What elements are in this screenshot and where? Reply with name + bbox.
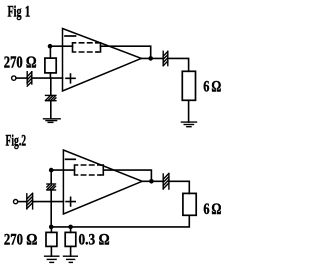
op-amp U2 minus input sign (66, 158, 76, 160)
wire: node down to vertical hatch (Fig2) (50, 170, 52, 184)
op-amp U1 plus input sign (66, 74, 75, 83)
node dot (bottom rail right, Fig2) (68, 225, 73, 230)
label 6 ohm (Fig1) (203, 78, 221, 96)
svg-text:6: 6 (203, 78, 209, 96)
svg-text:270: 270 (4, 54, 23, 72)
resistor R4 270ohm (Fig2) (46, 227, 57, 256)
input terminal circle (Fig1) (12, 76, 16, 80)
node dot (Fig2 inverting input) (49, 168, 54, 173)
hatched element on Fig2 output wire (163, 173, 169, 189)
node dot A (top of R1) (48, 44, 53, 49)
wire: node to inverting input and dashed resistor lead (Fig2) (51, 169, 74, 171)
wire: R3 bottom to feedback bottom rail (51, 215, 189, 227)
ground (Fig1 left) (44, 119, 61, 123)
label 270 ohm (Fig1) (4, 54, 37, 72)
wire: hatch down to bottom node (Fig2) (50, 190, 52, 227)
svg-text:1: 1 (25, 3, 31, 20)
wire: R2 to ground (188, 100, 190, 122)
ground (under R4) (45, 256, 59, 262)
input terminal circle (Fig2) (14, 200, 18, 204)
svg-text:6: 6 (203, 201, 209, 219)
svg-text:Ω: Ω (211, 201, 221, 219)
svg-text:0.3: 0.3 (79, 231, 96, 249)
op-amp U1 triangle (63, 29, 142, 92)
output node dot (Fig1) (148, 56, 153, 61)
resistor R2 6ohm (Fig1) (182, 71, 195, 100)
svg-text:Ω: Ω (26, 232, 37, 249)
label 270 ohm (Fig2) (4, 231, 37, 249)
wire: hatch to load corner (Fig1) (168, 58, 189, 71)
wire: terminal to input hatch (16, 77, 27, 79)
resistor R5 0.3ohm (Fig2) (65, 227, 76, 256)
resistor R3 6ohm (Fig2) (183, 193, 196, 215)
internal dashed resistor of U1 (73, 43, 101, 52)
op-amp U1 minus input sign (65, 35, 76, 37)
wire: terminal to input hatch (Fig2) (18, 201, 27, 203)
svg-text:270: 270 (4, 231, 23, 249)
wire: hatch to non-inverting input (Fig2) (33, 201, 64, 203)
ground (under R5) (64, 256, 78, 262)
wire: hatch to non-inverting input (32, 77, 63, 79)
hatched element on Fig1 input wire (27, 72, 32, 86)
svg-text:Ω: Ω (211, 78, 221, 96)
caption Fig.2 (6, 132, 27, 149)
op-amp U2 plus input sign (66, 197, 75, 206)
wire: hatch to load resistor (Fig2) (169, 181, 189, 193)
output node dot (Fig2) (149, 179, 154, 184)
svg-text:Ω: Ω (26, 54, 37, 72)
node dot (bottom rail left, Fig2) (49, 225, 54, 230)
wire: node to inverting input and dashed resistor lead (50, 45, 73, 47)
caption Fig1 (8, 2, 31, 20)
label 6 ohm (Fig2) (203, 201, 221, 219)
op-amp U2 triangle (63, 150, 142, 214)
hatched element on Fig1 output wire (163, 51, 168, 65)
wire: op-amp output to hatch (Fig2) (142, 180, 163, 182)
hatched element on Fig1 ground branch (46, 95, 56, 100)
wire: hatch to ground (Fig1 left) (50, 101, 52, 119)
wire: op-amp output to output hatch (141, 57, 163, 59)
svg-text:Fig.2: Fig.2 (6, 132, 27, 149)
wire: dashed resistor to feedback corner (Fig2) (103, 170, 151, 181)
wire: dashed resistor to feedback corner (101, 46, 151, 58)
hatched element on Fig2 sense branch (47, 184, 56, 190)
label 0.3 ohm (Fig2) (79, 231, 110, 249)
wire: junction down to vertical hatch (50, 78, 52, 95)
svg-text:Ω: Ω (99, 231, 110, 248)
ground (Fig1 right) (181, 122, 196, 127)
internal dashed resistor of U2 (75, 165, 104, 175)
resistor R1 270ohm (45, 46, 56, 78)
hatched element on Fig2 input wire (27, 193, 33, 209)
svg-text:Fig: Fig (8, 2, 22, 20)
